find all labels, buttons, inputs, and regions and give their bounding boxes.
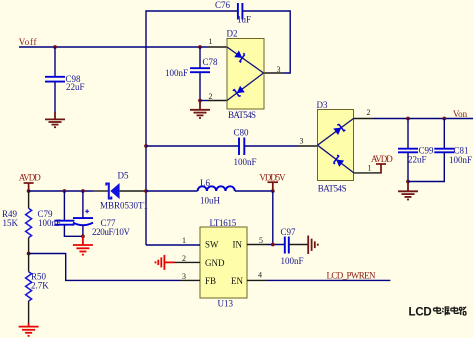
wire Von rail	[374, 118, 474, 120]
junction AVDD/C79	[63, 189, 67, 193]
wire SW vertical	[146, 11, 238, 245]
D3 internal line pin3->pin2	[318, 119, 354, 146]
wire C78 top	[199, 47, 201, 68]
svg-text:100nF: 100nF	[449, 155, 472, 165]
svg-text:15K: 15K	[3, 218, 19, 228]
wire C79 bottom	[64, 225, 83, 237]
diode package D2	[227, 39, 264, 110]
capacitor C80	[239, 138, 244, 156]
junction VDD5V/L6/IN	[271, 189, 275, 193]
resistor R50	[26, 272, 32, 301]
svg-text:EN: EN	[231, 276, 243, 286]
pin IN stub	[247, 244, 267, 246]
capacitor C99	[398, 149, 418, 153]
wire L6 to VDD5V	[235, 190, 273, 192]
hanzi 源	[442, 307, 450, 315]
junction AVDD/R49	[27, 189, 31, 193]
wire C80 row left	[146, 145, 239, 147]
svg-text:D2: D2	[227, 29, 238, 39]
svg-text:4: 4	[258, 271, 262, 280]
svg-text:GND: GND	[205, 258, 225, 268]
diode D5	[106, 183, 119, 199]
svg-text:Von: Von	[453, 109, 468, 119]
svg-text:1: 1	[182, 236, 186, 245]
diode D2 top (anode pin1)	[234, 50, 246, 62]
wire C76 right to D2 pin3	[242, 11, 290, 73]
resistor R49	[26, 208, 32, 237]
svg-text:3: 3	[182, 272, 186, 281]
diode D3 bottom (anode pin1)	[332, 155, 344, 167]
svg-text:LT1615: LT1615	[210, 218, 237, 228]
junction SW/L6/D5	[144, 189, 148, 193]
svg-text:100nF: 100nF	[234, 157, 257, 167]
svg-text:D3: D3	[317, 100, 328, 110]
wire FB path	[29, 254, 180, 281]
svg-text:22uF: 22uF	[66, 82, 85, 92]
svg-text:VDD5V: VDD5V	[259, 172, 286, 182]
svg-text:Voff: Voff	[19, 37, 37, 47]
ground at C97 (sideways)	[308, 236, 318, 255]
power port VDD5V	[268, 182, 279, 191]
wire IN to C97	[267, 244, 285, 246]
svg-text:AVDD: AVDD	[19, 173, 42, 183]
svg-text:1: 1	[209, 37, 213, 46]
wire C77 bottom	[82, 225, 84, 236]
svg-text:1: 1	[368, 164, 372, 173]
D2 internal line pin1->pin3	[227, 47, 264, 73]
junction Voff/C98	[53, 45, 57, 49]
svg-text:FB: FB	[205, 276, 216, 286]
capacitor C81	[434, 149, 454, 153]
svg-text:100nF: 100nF	[165, 68, 188, 78]
junction C79/C77 ground	[81, 234, 85, 238]
power port AVDD (left)	[24, 183, 34, 191]
junction C78/D2 pin2	[198, 99, 202, 103]
junction C99/C81 return	[406, 180, 410, 184]
diode D2 bottom (cathode pin2)	[233, 86, 245, 98]
IC U1 LT1615	[200, 227, 247, 298]
svg-text:2: 2	[209, 92, 213, 101]
svg-text:C97: C97	[281, 227, 297, 237]
D2 internal line pin2->pin3	[227, 73, 264, 101]
wire C79 top	[63, 191, 65, 221]
capacitor C79	[54, 221, 74, 225]
svg-text:U13: U13	[218, 299, 234, 309]
svg-text:3: 3	[277, 65, 281, 74]
svg-text:1uF: 1uF	[237, 14, 251, 24]
wire pin1 to AVDD	[374, 172, 382, 174]
wire C77 top	[82, 191, 84, 218]
ground below C99	[398, 182, 418, 200]
svg-text:5: 5	[259, 236, 263, 245]
pin EN stub	[247, 279, 267, 281]
wire C81 top	[443, 119, 445, 149]
junction R49/R50/FB	[27, 252, 31, 256]
capacitor C78	[190, 68, 210, 72]
svg-text:LCD_PWREN: LCD_PWREN	[327, 271, 377, 281]
inductor L6	[198, 186, 235, 191]
junction Von/C99	[406, 117, 410, 121]
svg-text:2: 2	[367, 108, 371, 117]
power port AVDD (right)	[376, 164, 386, 173]
junction SW/C80	[144, 144, 148, 148]
wire C99 top	[407, 119, 409, 149]
ground below C98	[45, 112, 65, 127]
ground below R50	[19, 323, 39, 336]
svg-text:220uF/10V: 220uF/10V	[92, 227, 131, 237]
pin FB stub	[180, 279, 200, 281]
ground below C78	[190, 101, 210, 119]
wire pin2 row	[200, 100, 207, 102]
svg-text:LCD: LCD	[409, 307, 432, 319]
svg-text:C76: C76	[215, 0, 231, 10]
svg-text:10uH: 10uH	[200, 196, 221, 206]
svg-text:3: 3	[300, 137, 304, 146]
junction AVDD/C77	[81, 189, 85, 193]
svg-text:SW: SW	[205, 240, 219, 250]
svg-text:BAT54S: BAT54S	[318, 183, 347, 193]
wire D5 to L6	[146, 190, 198, 192]
junction Von/C81	[442, 117, 446, 121]
pin D2 pin1 stub	[207, 46, 227, 48]
wire C80 row right	[244, 145, 297, 147]
svg-text:2.7K: 2.7K	[31, 281, 49, 291]
wire Voff rail	[19, 46, 207, 48]
wire R49 bottom lead	[28, 238, 30, 254]
wire C98 bottom	[54, 82, 56, 113]
pin SW stub	[146, 244, 200, 246]
svg-text:100nF: 100nF	[38, 218, 61, 228]
D3 internal line pin3->pin1	[318, 145, 354, 172]
wire C78 bottom	[199, 72, 201, 100]
hanzi 电 (2)	[451, 307, 458, 314]
svg-text:BAT54S: BAT54S	[228, 110, 256, 120]
wire VDD5V vertical to IN	[272, 191, 274, 245]
hanzi 路	[459, 307, 466, 315]
wire R49 top lead	[28, 191, 30, 208]
pin D3 pin1 stub	[354, 172, 374, 174]
wire C99 bottom	[407, 152, 409, 181]
svg-text:L6: L6	[200, 178, 210, 188]
wire C97 to ground	[289, 244, 308, 246]
pin D2 pin3 stub	[264, 72, 284, 74]
wire C98 top	[54, 47, 56, 76]
svg-text:2: 2	[182, 254, 186, 263]
svg-text:22uF: 22uF	[408, 155, 427, 165]
wire R50 bottom lead	[28, 301, 30, 325]
capacitor C97	[285, 237, 289, 254]
pin D5 cathode lead	[93, 190, 109, 192]
hanzi 电 (1)	[434, 307, 441, 314]
capacitor C76	[238, 3, 243, 20]
svg-text:C78: C78	[203, 57, 219, 67]
pin GND stub	[174, 261, 200, 263]
svg-text:AVDD: AVDD	[371, 154, 393, 164]
wire C81 bottom	[408, 152, 444, 181]
svg-text:C80: C80	[234, 128, 250, 138]
junction IN/C97	[271, 243, 275, 247]
svg-text:IN: IN	[233, 240, 243, 250]
pin D5 anode lead	[120, 190, 147, 192]
diode package D3	[318, 110, 354, 181]
junction Voff/C78	[198, 45, 202, 49]
capacitor C98	[45, 77, 65, 82]
wire AVDD rail	[29, 190, 93, 192]
capacitor C77 (polarized)	[73, 209, 93, 225]
wire EN / LCD_PWREN	[267, 279, 390, 281]
pin D2 pin2 stub	[207, 100, 227, 102]
svg-text:C81: C81	[454, 146, 469, 156]
svg-text:MBR0530T1: MBR0530T1	[100, 201, 148, 211]
svg-text:D5: D5	[118, 171, 129, 181]
ground at GND pin (sideways)	[156, 255, 175, 270]
diode D3 top (cathode pin2)	[333, 123, 345, 135]
pin D3 pin2 stub	[354, 118, 374, 120]
svg-text:100nF: 100nF	[281, 256, 304, 266]
ground below C77	[73, 236, 93, 254]
wire R50 top lead	[28, 254, 30, 272]
pin D3 pin3 stub	[298, 145, 318, 147]
